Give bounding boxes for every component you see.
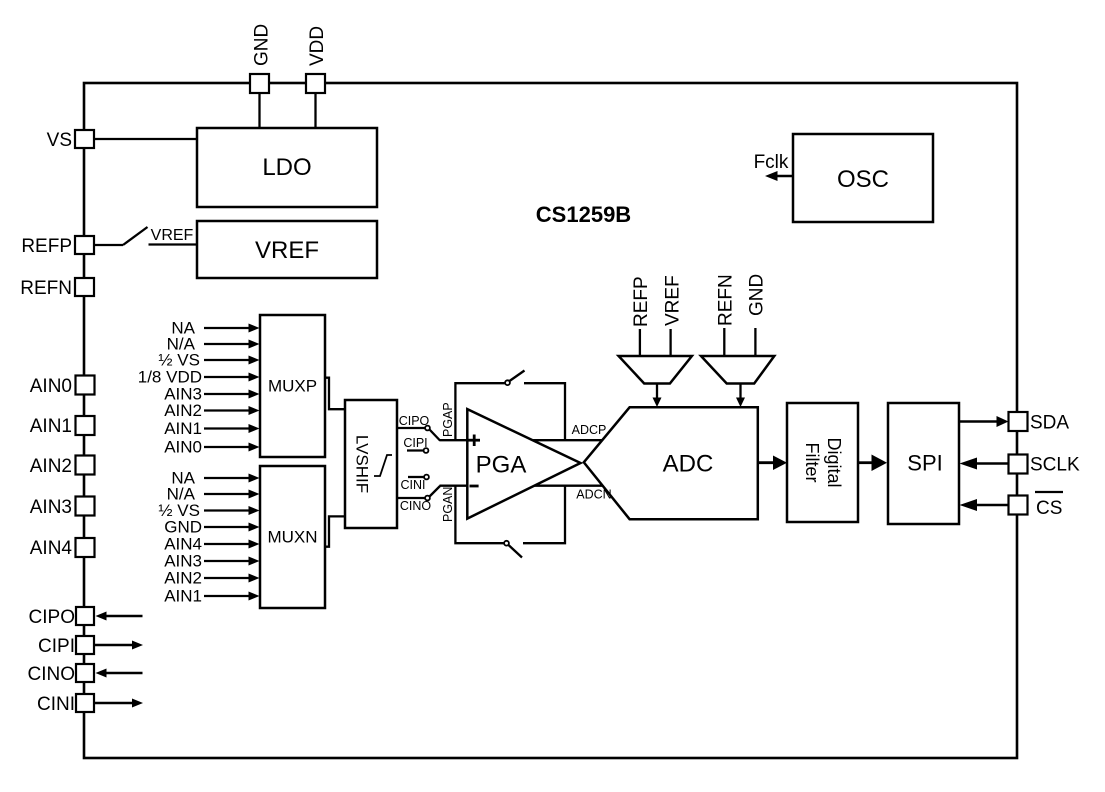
svg-text:AIN2: AIN2 xyxy=(30,456,72,477)
svg-text:PGAP: PGAP xyxy=(441,402,455,437)
svg-text:OSC: OSC xyxy=(837,166,889,193)
svg-text:CINI: CINI xyxy=(401,478,426,492)
svg-text:MUXP: MUXP xyxy=(268,377,317,396)
svg-text:AIN2: AIN2 xyxy=(164,401,202,420)
svg-text:LVSHIF: LVSHIF xyxy=(353,435,372,493)
svg-text:Digital: Digital xyxy=(824,437,844,487)
svg-text:AIN1: AIN1 xyxy=(164,587,202,606)
svg-text:VREF: VREF xyxy=(255,237,319,264)
svg-text:VDD: VDD xyxy=(307,26,328,66)
svg-text:Fclk: Fclk xyxy=(754,152,789,173)
svg-text:AIN4: AIN4 xyxy=(30,538,73,559)
svg-text:VS: VS xyxy=(47,130,72,151)
svg-text:LDO: LDO xyxy=(262,154,311,181)
svg-text:AIN3: AIN3 xyxy=(30,497,72,518)
svg-text:SPI: SPI xyxy=(907,451,942,476)
svg-text:SCLK: SCLK xyxy=(1030,455,1080,476)
svg-text:REFP: REFP xyxy=(631,276,652,327)
svg-text:CIPI: CIPI xyxy=(403,436,427,450)
svg-text:PGA: PGA xyxy=(476,452,527,479)
svg-text:CINI: CINI xyxy=(37,694,75,715)
svg-text:AIN1: AIN1 xyxy=(30,416,72,437)
svg-text:CS1259B: CS1259B xyxy=(536,202,631,227)
svg-text:CIPI: CIPI xyxy=(38,636,75,657)
svg-text:REFP: REFP xyxy=(21,236,72,257)
svg-text:CIPO: CIPO xyxy=(399,414,430,428)
svg-text:AIN0: AIN0 xyxy=(164,438,202,457)
svg-text:CIPO: CIPO xyxy=(29,607,75,628)
svg-text:PGAN: PGAN xyxy=(441,487,455,522)
svg-text:ADC: ADC xyxy=(663,451,714,478)
svg-text:CS: CS xyxy=(1036,498,1062,519)
svg-text:SDA: SDA xyxy=(1030,413,1069,434)
svg-text:CINO: CINO xyxy=(28,664,76,685)
svg-text:VREF: VREF xyxy=(151,227,194,244)
svg-text:REFN: REFN xyxy=(716,274,737,326)
svg-text:GND: GND xyxy=(747,274,768,316)
svg-text:ADCP: ADCP xyxy=(572,423,607,437)
svg-text:CINO: CINO xyxy=(400,499,432,513)
svg-text:REFN: REFN xyxy=(20,278,72,299)
svg-text:MUXN: MUXN xyxy=(267,528,317,547)
svg-text:AIN0: AIN0 xyxy=(30,376,72,397)
svg-text:VREF: VREF xyxy=(663,275,684,326)
svg-text:AIN1: AIN1 xyxy=(164,419,202,438)
svg-text:ADCN: ADCN xyxy=(576,488,611,502)
svg-text:AIN2: AIN2 xyxy=(164,569,202,588)
svg-text:Filter: Filter xyxy=(802,443,822,483)
svg-text:GND: GND xyxy=(252,24,273,66)
